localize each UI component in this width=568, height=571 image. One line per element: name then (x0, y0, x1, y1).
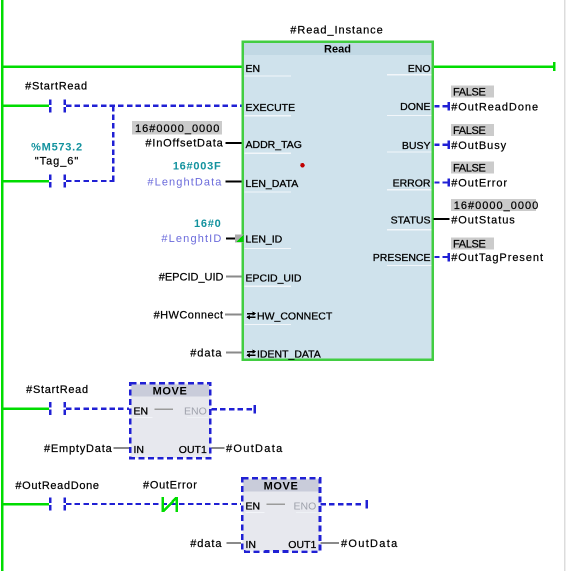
svg-text:#data: #data (190, 538, 222, 550)
svg-text:16#003F: 16#003F (173, 160, 222, 172)
svg-text:ENO: ENO (294, 501, 317, 513)
svg-text:FALSE: FALSE (453, 125, 486, 137)
svg-text:FALSE: FALSE (453, 86, 486, 98)
svg-text:OUT1: OUT1 (288, 539, 316, 551)
svg-text:#OutStatus: #OutStatus (451, 215, 516, 227)
svg-text:EPCID_UID: EPCID_UID (246, 272, 302, 284)
svg-text:#data: #data (190, 348, 222, 360)
svg-text:#StartRead: #StartRead (26, 384, 89, 396)
svg-text:#StartRead: #StartRead (25, 81, 88, 93)
svg-text:EN: EN (246, 63, 261, 75)
svg-text:DONE: DONE (400, 101, 430, 113)
svg-text:16#0000_0000: 16#0000_0000 (454, 200, 539, 212)
svg-text:ERROR: ERROR (393, 178, 431, 190)
svg-text:#OutData: #OutData (226, 443, 283, 455)
svg-text:16#0000_0000: 16#0000_0000 (135, 123, 220, 135)
svg-text:FALSE: FALSE (453, 239, 486, 251)
svg-text:ENO: ENO (408, 63, 431, 75)
svg-text:MOVE: MOVE (264, 481, 299, 493)
svg-text:#OutReadDone: #OutReadDone (451, 101, 539, 113)
svg-text:#OutTagPresent: #OutTagPresent (451, 252, 544, 264)
svg-text:IN: IN (246, 539, 257, 551)
svg-text:#OutReadDone: #OutReadDone (15, 480, 99, 492)
svg-text:LEN_ID: LEN_ID (246, 234, 283, 246)
svg-text:#OutBusy: #OutBusy (451, 140, 507, 152)
svg-text:%M573.2: %M573.2 (31, 141, 83, 153)
svg-text:EXECUTE: EXECUTE (246, 102, 296, 114)
svg-text:Read: Read (324, 44, 351, 56)
svg-text:ADDR_TAG: ADDR_TAG (246, 139, 302, 151)
svg-text:EN: EN (134, 406, 149, 418)
svg-text:OUT1: OUT1 (179, 444, 207, 456)
svg-text:STATUS: STATUS (391, 214, 431, 226)
svg-text:#EmptyData: #EmptyData (44, 443, 113, 455)
svg-text:#LenghtID: #LenghtID (161, 233, 222, 245)
svg-text:"Tag_6": "Tag_6" (35, 156, 79, 168)
svg-text:BUSY: BUSY (402, 140, 431, 152)
svg-text:16#0: 16#0 (194, 218, 221, 230)
svg-text:MOVE: MOVE (153, 386, 188, 398)
svg-text:#Read_Instance: #Read_Instance (290, 25, 383, 37)
svg-text:#InOffsetData: #InOffsetData (145, 138, 223, 150)
svg-text:EN: EN (246, 501, 261, 513)
svg-text:PRESENCE: PRESENCE (373, 252, 431, 264)
svg-text:#OutError: #OutError (451, 178, 508, 190)
svg-text:IN: IN (134, 444, 145, 456)
svg-text:#OutError: #OutError (143, 480, 198, 492)
svg-text:HW_CONNECT: HW_CONNECT (257, 310, 333, 322)
svg-text:ENO: ENO (184, 406, 207, 418)
svg-text:#EPCID_UID: #EPCID_UID (159, 272, 224, 284)
svg-text:#LenghtData: #LenghtData (147, 176, 222, 188)
svg-text:#HWConnect: #HWConnect (154, 310, 224, 322)
svg-text:#OutData: #OutData (341, 538, 398, 550)
svg-text:FALSE: FALSE (453, 163, 486, 175)
svg-text:IDENT_DATA: IDENT_DATA (257, 348, 321, 360)
svg-text:LEN_DATA: LEN_DATA (246, 178, 299, 190)
